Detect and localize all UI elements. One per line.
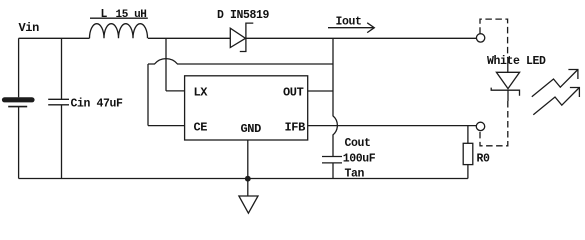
wire bottom ground rail — [19, 178, 468, 180]
svg-text:Cin 47uF: Cin 47uF — [71, 98, 124, 111]
svg-text:L: L — [101, 8, 108, 21]
svg-text:15 uH: 15 uH — [116, 9, 147, 21]
wire IFB to LED terminal — [308, 125, 477, 127]
wire output drop with hop over IFB wire — [333, 38, 337, 156]
wire battery top lead — [18, 38, 20, 97]
wire diode to output terminal — [246, 37, 476, 39]
wire LX horizontal into IC — [166, 90, 185, 92]
svg-text:Tan: Tan — [345, 168, 365, 181]
wire CE horizontal with hop over LX wire — [148, 59, 333, 64]
wire dashed LED bottom connection — [480, 101, 508, 146]
inductor L — [90, 18, 148, 38]
wire CE into IC — [148, 125, 185, 127]
svg-text:Cout: Cout — [345, 137, 371, 150]
arrow Iout — [328, 23, 374, 33]
svg-text:D IN5819: D IN5819 — [217, 9, 270, 22]
wire OUT to output drop — [308, 90, 333, 92]
terminal feedback bottom (circle) — [476, 122, 484, 130]
ground — [239, 179, 258, 214]
label L 15 uH — [101, 8, 147, 21]
wire battery bottom lead — [18, 107, 20, 179]
capacitor Cin — [48, 99, 69, 105]
LED D2 white LED — [491, 72, 519, 96]
svg-text:White LED: White LED — [487, 55, 546, 68]
terminal output top (circle) — [476, 34, 484, 42]
wire Cin top lead — [61, 38, 63, 99]
arrow LED light emission 2 — [533, 88, 579, 115]
arrow LED light emission 1 — [532, 70, 578, 97]
wire CE vertical riser — [147, 64, 149, 126]
svg-text:Vin: Vin — [19, 21, 40, 35]
capacitor Cout — [322, 157, 342, 163]
LED D2 anode lead — [507, 58, 509, 72]
svg-text:OUT: OUT — [283, 86, 304, 100]
wire R0 bottom lead — [467, 165, 469, 179]
wire GND pin drop — [247, 140, 249, 179]
svg-text:Iout: Iout — [336, 16, 362, 29]
op-amp U1 IC box — [185, 76, 308, 140]
LED D2 cathode lead — [507, 90, 509, 101]
wire Cout bottom lead — [332, 163, 334, 179]
svg-text:IFB: IFB — [285, 121, 306, 135]
svg-text:CE: CE — [194, 121, 208, 135]
svg-text:R0: R0 — [477, 153, 491, 166]
wire R0 top lead — [467, 126, 469, 144]
diode D (schottky) — [230, 23, 253, 51]
wire top rail from Vin corner to inductor — [19, 37, 90, 39]
svg-text:GND: GND — [241, 122, 262, 136]
junction dot at ground rail — [245, 176, 251, 182]
wire inductor to diode — [148, 37, 230, 39]
svg-text:100uF: 100uF — [343, 153, 376, 166]
wire dashed LED top connection — [480, 19, 508, 58]
battery B1 — [5, 100, 33, 107]
wire LX drop from top rail — [165, 38, 167, 91]
wire Cin bottom lead — [61, 105, 63, 179]
resistor R0 — [463, 143, 473, 164]
svg-text:LX: LX — [194, 86, 209, 100]
